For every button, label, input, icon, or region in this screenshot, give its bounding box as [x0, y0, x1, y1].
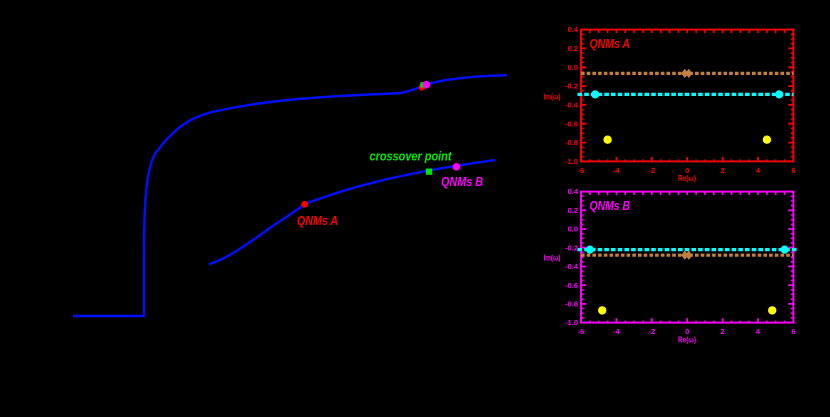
svg-text:-0.2: -0.2 [565, 243, 578, 252]
subplot A cyan dashed mode line [578, 93, 794, 96]
subplot B cyan dashed mode line [578, 248, 798, 251]
svg-text:0.0: 0.0 [568, 63, 578, 72]
svg-text:-0.6: -0.6 [565, 119, 578, 128]
svg-text:-0.6: -0.6 [565, 281, 578, 290]
svg-text:QNMs A: QNMs A [297, 213, 338, 228]
lower blue curve [209, 160, 496, 264]
svg-text:-0.4: -0.4 [565, 262, 579, 271]
svg-text:2: 2 [721, 166, 725, 175]
subplot A brown diamond markers at Re~0 [681, 69, 692, 78]
red marker on upper curve [419, 84, 426, 91]
svg-text:-0.2: -0.2 [565, 82, 578, 91]
svg-text:-2: -2 [648, 327, 655, 336]
subplot A brown dashed mode line [581, 72, 793, 75]
svg-text:QNMs B: QNMs B [590, 198, 631, 213]
svg-text:-1.0: -1.0 [565, 157, 578, 166]
svg-text:Im(ω): Im(ω) [544, 92, 561, 102]
svg-text:-1.0: -1.0 [565, 318, 578, 327]
magenta marker on upper curve [423, 81, 431, 89]
svg-text:0.0: 0.0 [568, 225, 578, 234]
svg-text:Re(ω): Re(ω) [678, 335, 696, 345]
svg-text:2: 2 [721, 327, 725, 336]
svg-text:-4: -4 [613, 166, 620, 175]
svg-text:QNMs A: QNMs A [590, 36, 631, 51]
svg-text:-0.8: -0.8 [565, 138, 578, 147]
subplot A frame (red) [581, 30, 793, 162]
subplot A cyan circles at Re=+-5.2 [591, 90, 599, 98]
upper blue curve (step + saturation + avoided crossing) [73, 75, 507, 316]
svg-text:0.2: 0.2 [568, 206, 578, 215]
subplot B tick marks [581, 192, 793, 323]
subplot A tick marks [581, 30, 793, 162]
svg-text:-6: -6 [578, 166, 585, 175]
subplot B brown diamond markers at Re~0 [681, 251, 692, 260]
svg-text:-6: -6 [578, 327, 585, 336]
svg-text:0.2: 0.2 [568, 44, 578, 53]
red marker QNMs A on lower curve [301, 201, 308, 208]
svg-text:crossover point: crossover point [370, 150, 453, 164]
magenta marker QNMs B on lower curve [453, 163, 461, 171]
svg-text:0.4: 0.4 [568, 187, 579, 196]
svg-text:-2: -2 [648, 166, 655, 175]
svg-text:Re(ω): Re(ω) [678, 173, 696, 183]
svg-text:0.4: 0.4 [568, 25, 579, 34]
subplot B brown dashed mode line [581, 254, 793, 257]
svg-text:-0.8: -0.8 [565, 300, 578, 309]
subplot B frame (magenta) [581, 192, 793, 323]
svg-text:6: 6 [791, 327, 795, 336]
svg-text:Im(ω): Im(ω) [544, 253, 561, 263]
svg-text:6: 6 [791, 166, 795, 175]
green square marker: crossover point [426, 169, 432, 175]
svg-text:QNMs B: QNMs B [441, 174, 483, 189]
subplot B cyan circles at Re=+-5.5 [586, 246, 594, 254]
subplot B yellow circles at Re=+-4.8 [598, 306, 606, 314]
green marker on upper curve (mostly hidden) [420, 82, 425, 87]
svg-text:-4: -4 [613, 327, 620, 336]
svg-text:-0.4: -0.4 [565, 101, 579, 110]
subplot A yellow circles at Re=+-4.5 [603, 136, 611, 144]
